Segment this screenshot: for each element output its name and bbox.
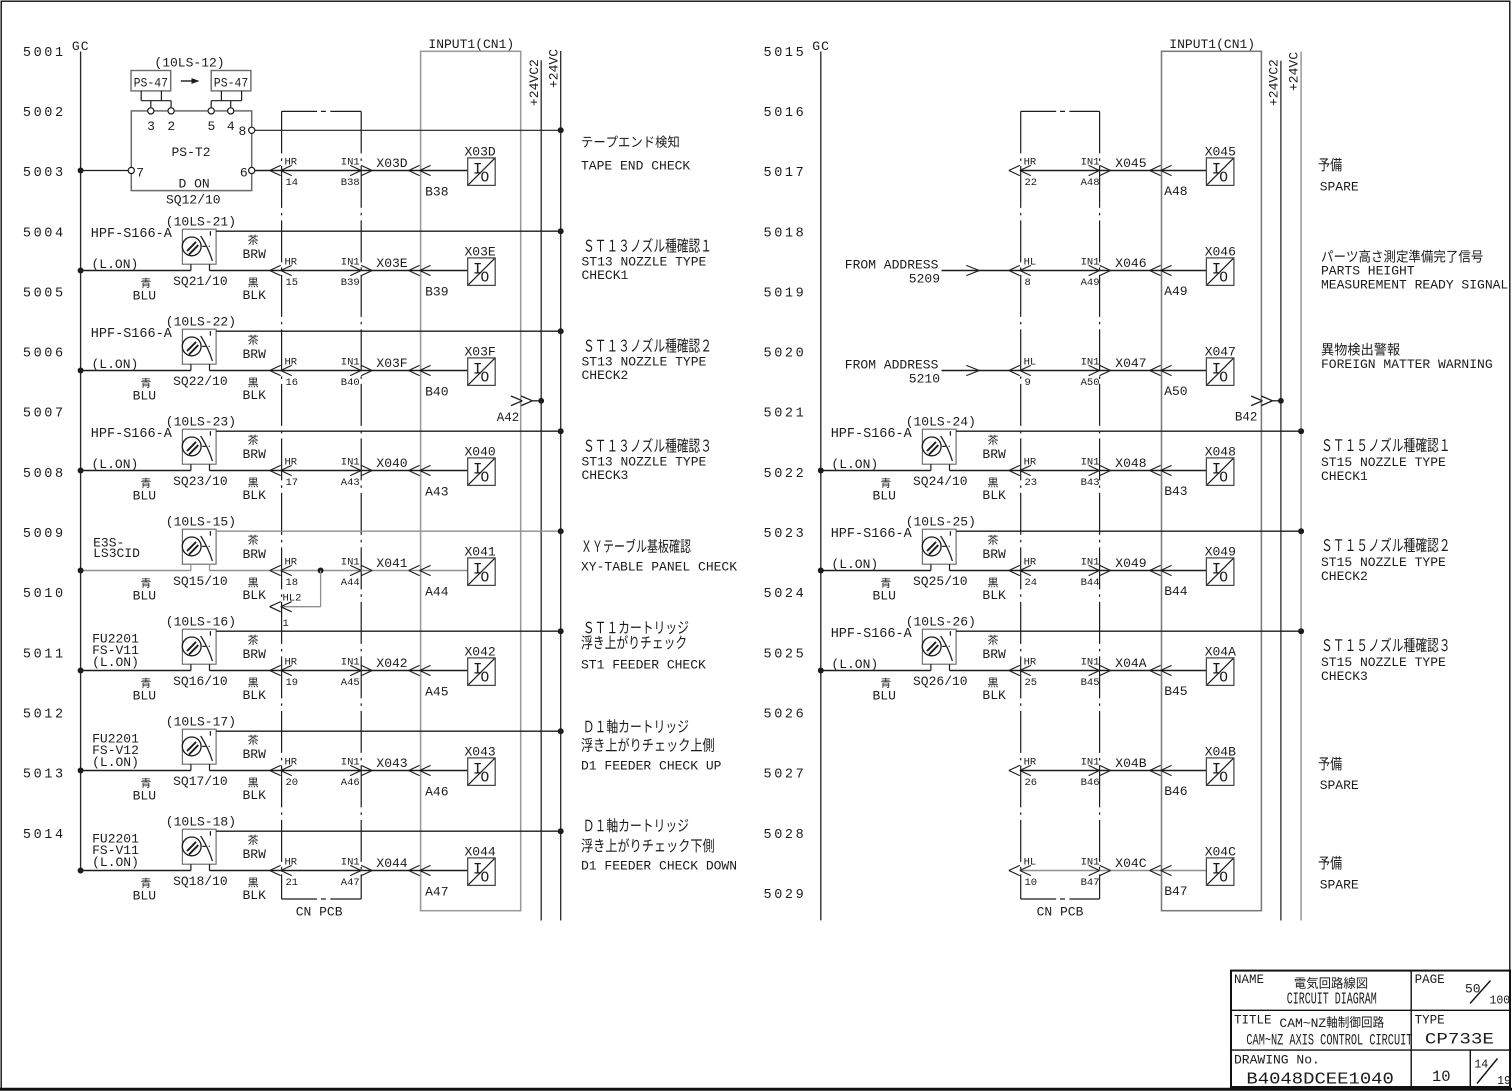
wire sensor SQ21/10 to connector X03E <box>210 270 468 272</box>
svg-text:HR: HR <box>285 657 298 669</box>
svg-text:IN1: IN1 <box>1081 757 1100 769</box>
connector plug X03D at INPUT1 <box>409 165 431 175</box>
connector X03D label <box>376 156 407 171</box>
svg-text:X042: X042 <box>465 644 496 659</box>
connector plug X043 at INPUT1 <box>409 765 431 775</box>
svg-text:XY-TABLE PANEL CHECK: XY-TABLE PANEL CHECK <box>581 559 737 574</box>
svg-text:5013: 5013 <box>23 768 66 783</box>
svg-text:D ON: D ON <box>179 176 210 191</box>
svg-text:B47: B47 <box>1081 877 1100 889</box>
connector pin IN1 A50 right <box>1081 357 1111 390</box>
svg-text:ST15 NOZZLE TYPE: ST15 NOZZLE TYPE <box>1321 455 1446 470</box>
connector pin IN1 A47 <box>341 857 372 890</box>
svg-text:INPUT1(CN1): INPUT1(CN1) <box>428 37 514 52</box>
wire GC to sensor SQ24/10 <box>818 468 931 474</box>
svg-text:O: O <box>481 670 490 686</box>
sensor assembly label (10LS-12) <box>154 56 224 71</box>
wire color label brown (BRW) row X03F <box>243 335 267 362</box>
net label A48 at INPUT1 right <box>1164 184 1187 199</box>
svg-text:5005: 5005 <box>23 286 66 301</box>
svg-text:X047: X047 <box>1205 344 1236 359</box>
line number labels 5015-5029 <box>764 46 807 903</box>
svg-text:5019: 5019 <box>764 286 807 301</box>
net label A44 at INPUT1 <box>425 585 449 600</box>
svg-text:CAM~NZ: CAM~NZ <box>1279 1016 1326 1031</box>
svg-text:19: 19 <box>1497 1075 1511 1088</box>
connector X049 label <box>1115 556 1146 571</box>
connector pin HL 8 (CN PCB side, right) <box>1009 257 1036 290</box>
wire sensor top (BRW) to +24VC row X049 <box>956 528 1304 534</box>
svg-text:BLK: BLK <box>982 688 1006 703</box>
title block TYPE cell CP733E <box>1415 1013 1494 1048</box>
svg-text:5209: 5209 <box>909 271 940 286</box>
wire GC to sensor SQ18/10 <box>78 868 191 874</box>
svg-text:ST15 NOZZLE TYPE: ST15 NOZZLE TYPE <box>1321 555 1446 570</box>
limit switch sensor SQ17/10 (10LS-17) <box>92 715 236 790</box>
svg-text:IN1: IN1 <box>341 557 360 569</box>
wire sensor top (BRW) to +24VC row X04A <box>956 628 1304 634</box>
dash-dot boundary box CN PCB (right) <box>1021 111 1100 919</box>
svg-text:24: 24 <box>1025 577 1038 589</box>
line number labels 5001-5014 <box>23 46 66 843</box>
wire spare row to connector X04C <box>1021 870 1207 872</box>
wire color label black (BLK) row X03F <box>243 378 267 403</box>
svg-text:X048: X048 <box>1115 456 1146 471</box>
svg-text:BLU: BLU <box>133 489 156 504</box>
wire sensor SQ18/10 to connector X044 <box>210 870 468 872</box>
power bus +24VC left <box>546 49 561 921</box>
signal source FROM ADDRESS 5210 <box>845 357 940 386</box>
connector pin IN1 B47 right <box>1081 857 1111 890</box>
svg-text:7: 7 <box>136 165 144 180</box>
limit switch sensor SQ24/10 (10LS-24) <box>831 415 976 490</box>
svg-text:CHECK3: CHECK3 <box>1321 669 1368 684</box>
I/O module X047 <box>1205 344 1236 386</box>
svg-text:SQ25/10: SQ25/10 <box>913 574 968 589</box>
connector pin HR 26 (CN PCB side, right) <box>1009 757 1037 790</box>
wire PS-T2 pin 6 to connector X03D <box>255 170 468 172</box>
svg-text:X03E: X03E <box>465 244 496 259</box>
svg-text:BLK: BLK <box>243 388 267 403</box>
svg-text:5012: 5012 <box>23 707 66 722</box>
net label A47 at INPUT1 <box>425 885 448 900</box>
svg-text:LS3CID: LS3CID <box>93 546 140 561</box>
svg-text:PS-T2: PS-T2 <box>172 145 211 160</box>
wire color label blue (BLU) row X03F <box>133 378 156 404</box>
connector pin HR 22 (CN PCB side, right) <box>1009 157 1037 190</box>
svg-text:HL: HL <box>1024 257 1037 269</box>
svg-text:5003: 5003 <box>23 166 66 181</box>
wire color label brown (BRW) row X03E <box>243 235 267 262</box>
svg-text:O: O <box>481 570 490 586</box>
wire bracket PS-47 first to PS-T2 pins 3,2 <box>141 91 171 108</box>
svg-text:SQ24/10: SQ24/10 <box>913 474 968 489</box>
svg-text:BLK: BLK <box>243 288 267 303</box>
svg-text:B44: B44 <box>1081 577 1100 589</box>
connector X04A label <box>1115 656 1146 671</box>
svg-text:TYPE: TYPE <box>1415 1013 1445 1027</box>
svg-text:O: O <box>1219 870 1228 886</box>
I/O module X03F <box>465 344 496 386</box>
net label B38 at INPUT1 <box>425 185 448 200</box>
net link A42 arrow to +24VC2 <box>497 396 544 425</box>
description SPARE X04B <box>1319 757 1359 793</box>
wire color label blue (BLU) row X048 <box>873 478 896 504</box>
svg-text:HPF-S166-A: HPF-S166-A <box>91 327 173 342</box>
svg-text:CHECK2: CHECK2 <box>582 368 629 383</box>
connector pin IN1 A44 <box>341 557 372 590</box>
svg-text:22: 22 <box>1025 177 1038 189</box>
photo-sensor PS-47 (first) <box>131 71 171 91</box>
I/O module X041 <box>465 544 496 586</box>
svg-text:X03D: X03D <box>465 144 496 159</box>
svg-text:B46: B46 <box>1164 784 1187 799</box>
connector X040 label <box>376 456 407 471</box>
description SPARE X04C <box>1319 856 1359 893</box>
svg-text:5006: 5006 <box>23 347 66 362</box>
svg-text:(10LS-16): (10LS-16) <box>166 615 236 630</box>
connector pin IN1 A43 <box>341 457 372 490</box>
svg-text:A44: A44 <box>425 585 449 600</box>
connector X048 label <box>1115 456 1146 471</box>
description SPARE X045 <box>1319 158 1359 195</box>
connector plug X048 at INPUT1 right <box>1150 465 1172 475</box>
svg-text:HPF-S166-A: HPF-S166-A <box>91 227 173 242</box>
svg-text:(10LS-21): (10LS-21) <box>166 215 236 230</box>
wire sensor SQ25/10 to connector X049 <box>950 570 1207 572</box>
svg-text:HR: HR <box>285 557 298 569</box>
connector X042 label <box>376 656 407 671</box>
svg-text:X049: X049 <box>1205 544 1236 559</box>
svg-text:B47: B47 <box>1164 884 1187 899</box>
svg-text:HR: HR <box>1024 457 1037 469</box>
svg-text:BRW: BRW <box>243 347 267 362</box>
wire sensor top (BRW) to +24VC row X03F <box>216 328 564 334</box>
svg-text:B39: B39 <box>425 285 448 300</box>
svg-text:PS-47: PS-47 <box>214 77 249 91</box>
connector plug X042 at INPUT1 <box>409 665 431 675</box>
wire sensor SQ15/10 to connector X041 <box>210 570 468 572</box>
svg-text:BLU: BLU <box>873 489 896 504</box>
description PARTS HEIGHT MEASUREMENT READY SIGNAL <box>1321 250 1508 293</box>
svg-text:(L.ON): (L.ON) <box>831 557 878 572</box>
svg-text:A47: A47 <box>341 877 360 889</box>
svg-text:5015: 5015 <box>764 46 807 61</box>
svg-text:14: 14 <box>286 177 299 189</box>
connector pin HR 14 (CN PCB side) <box>270 157 298 190</box>
wire sensor top (BRW) to +24VC row X040 <box>216 428 564 434</box>
svg-text:HR: HR <box>1024 157 1037 169</box>
svg-text:+24VC2: +24VC2 <box>527 59 542 106</box>
connector pin HR 15 (CN PCB side) <box>270 257 298 290</box>
dash-dot boundary box CN PCB (left) <box>282 111 362 919</box>
svg-text:BLU: BLU <box>873 589 896 604</box>
svg-text:(10LS-25): (10LS-25) <box>906 515 976 530</box>
svg-text:(10LS-15): (10LS-15) <box>166 515 236 530</box>
svg-text:19: 19 <box>286 677 299 689</box>
description ST13 NOZZLE TYPE CHECK3 <box>582 438 710 483</box>
svg-text:17: 17 <box>286 477 299 489</box>
svg-text:B38: B38 <box>341 177 360 189</box>
net label B47 at INPUT1 right <box>1164 884 1187 899</box>
svg-text:(10LS-26): (10LS-26) <box>906 615 976 630</box>
svg-text:HR: HR <box>285 457 298 469</box>
title block DRAWING No cell <box>1234 1053 1511 1089</box>
connector X03E label <box>376 256 407 271</box>
connector plug X041 at INPUT1 <box>409 565 431 575</box>
svg-text:A42: A42 <box>497 411 520 425</box>
wire color label brown (BRW) row X042 <box>243 635 267 662</box>
svg-text:IN1: IN1 <box>1081 657 1100 669</box>
svg-text:(L.ON): (L.ON) <box>831 457 878 472</box>
svg-text:(L.ON): (L.ON) <box>92 257 139 272</box>
svg-text:X044: X044 <box>465 844 496 859</box>
I/O module X03D <box>465 144 496 186</box>
svg-text:BLK: BLK <box>243 488 267 503</box>
svg-text:X043: X043 <box>465 744 496 759</box>
net label B39 at INPUT1 <box>425 285 448 300</box>
svg-text:10: 10 <box>1432 1068 1451 1086</box>
wire color label brown (BRW) row X049 <box>982 535 1006 562</box>
connector pin IN1 B45 right <box>1081 657 1111 690</box>
svg-text:+24VC: +24VC <box>546 49 561 88</box>
svg-text:A48: A48 <box>1081 177 1100 189</box>
svg-text:O: O <box>481 370 490 386</box>
svg-text:BRW: BRW <box>243 247 267 262</box>
svg-text:HR: HR <box>285 357 298 369</box>
title block frame <box>1231 971 1510 1087</box>
net label B44 at INPUT1 right <box>1164 584 1188 599</box>
svg-text:5002: 5002 <box>23 106 66 121</box>
connector box INPUT1(CN1) left <box>421 37 521 911</box>
wire sensor top (BRW) to +24VC row X044 <box>216 828 564 834</box>
svg-text:D1 FEEDER CHECK DOWN: D1 FEEDER CHECK DOWN <box>581 859 737 874</box>
svg-text:INPUT1(CN1): INPUT1(CN1) <box>1169 37 1255 52</box>
svg-text:10: 10 <box>1025 877 1038 889</box>
wire PS-T2 pin 8 to +24VC <box>255 127 564 133</box>
wire color label blue (BLU) row X03E <box>133 278 156 304</box>
svg-text:+24VC2: +24VC2 <box>1267 59 1282 106</box>
description ST13 NOZZLE TYPE CHECK1 <box>582 238 710 283</box>
svg-text:SQ21/10: SQ21/10 <box>173 274 228 289</box>
connector X047 label <box>1115 356 1146 371</box>
svg-text:X040: X040 <box>465 444 496 459</box>
svg-text:X03F: X03F <box>465 344 496 359</box>
wire color label black (BLK) row X03E <box>243 278 267 303</box>
net label A45 at INPUT1 <box>425 685 448 700</box>
wire color label blue (BLU) row X049 <box>873 578 896 604</box>
svg-text:HL: HL <box>1024 357 1037 369</box>
connector plug X04B at INPUT1 right <box>1150 765 1172 775</box>
svg-text:X049: X049 <box>1115 556 1146 571</box>
wire color label brown (BRW) row X04A <box>982 635 1006 662</box>
svg-text:5016: 5016 <box>764 106 807 121</box>
description D1 FEEDER CHECK DOWN <box>581 818 737 874</box>
svg-text:B38: B38 <box>425 185 448 200</box>
svg-text:BRW: BRW <box>982 647 1006 662</box>
svg-text:(10LS-24): (10LS-24) <box>906 415 976 430</box>
wire sensor top (BRW) to +24VC row X043 <box>216 728 564 734</box>
wire sensor SQ23/10 to connector X040 <box>210 470 468 472</box>
wire spare row to connector X045 <box>1021 170 1207 172</box>
wire color label black (BLK) row X041 <box>243 578 267 603</box>
connector pin HR 20 (CN PCB side) <box>270 757 298 790</box>
svg-text:HPF-S166-A: HPF-S166-A <box>831 627 913 642</box>
connector pin HR 23 (CN PCB side, right) <box>1009 457 1037 490</box>
svg-text:B45: B45 <box>1164 684 1187 699</box>
connector pin HR 16 (CN PCB side) <box>270 357 298 390</box>
svg-text:SQ23/10: SQ23/10 <box>173 474 228 489</box>
connector pin IN1 A48 right <box>1081 157 1111 190</box>
svg-text:FROM ADDRESS: FROM ADDRESS <box>845 257 939 272</box>
svg-text:5028: 5028 <box>764 828 807 843</box>
connector X03F label <box>376 356 407 371</box>
connector pin HR 17 (CN PCB side) <box>270 457 298 490</box>
svg-text:CIRCUIT DIAGRAM: CIRCUIT DIAGRAM <box>1287 990 1377 1009</box>
svg-text:BLK: BLK <box>243 688 267 703</box>
limit switch sensor SQ16/10 (10LS-16) <box>92 615 236 690</box>
svg-text:BLK: BLK <box>243 588 267 603</box>
svg-text:SQ18/10: SQ18/10 <box>173 874 228 889</box>
svg-text:IN1: IN1 <box>1081 257 1100 269</box>
svg-text:IN1: IN1 <box>341 357 360 369</box>
I/O module X04C <box>1205 844 1236 886</box>
wire color label black (BLK) row X042 <box>243 678 267 703</box>
wire sensor top (BRW) to +24VC row X042 <box>216 628 564 634</box>
wire bracket PS-47 second to PS-T2 pins 5,4 <box>211 91 241 108</box>
svg-text:(L.ON): (L.ON) <box>92 755 139 770</box>
svg-text:B40: B40 <box>425 385 448 400</box>
svg-text:5004: 5004 <box>23 226 66 241</box>
svg-text:X046: X046 <box>1115 256 1146 271</box>
wire color label blue (BLU) row X041 <box>133 578 156 604</box>
net GC (right) label <box>812 39 830 54</box>
svg-text:O: O <box>481 270 490 286</box>
connector X043 label <box>376 756 407 771</box>
svg-text:5001: 5001 <box>23 46 66 61</box>
svg-text:5010: 5010 <box>23 587 66 602</box>
connector pin IN1 A46 <box>341 757 372 790</box>
limit switch sensor SQ22/10 (10LS-22) <box>91 315 236 390</box>
limit switch sensor SQ23/10 (10LS-23) <box>91 415 236 490</box>
wire sensor SQ26/10 to connector X04A <box>950 670 1207 672</box>
wire GC to sensor SQ25/10 <box>818 568 931 574</box>
svg-text:X04C: X04C <box>1205 844 1236 859</box>
svg-text:A49: A49 <box>1164 284 1187 299</box>
description D1 FEEDER CHECK UP <box>581 719 722 773</box>
svg-text:A45: A45 <box>341 677 360 689</box>
svg-text:5017: 5017 <box>764 166 807 181</box>
connector pin IN1 B43 right <box>1081 457 1111 490</box>
connector plug X03E at INPUT1 <box>409 265 431 275</box>
svg-text:SPARE: SPARE <box>1320 179 1359 194</box>
svg-text:ST13 NOZZLE TYPE: ST13 NOZZLE TYPE <box>582 454 707 469</box>
svg-text:15: 15 <box>286 277 299 289</box>
svg-text:5027: 5027 <box>764 768 807 783</box>
wire GC to PS-T2 pin 7 <box>78 168 129 174</box>
svg-text:A50: A50 <box>1164 384 1187 399</box>
svg-text:HR: HR <box>1024 557 1037 569</box>
svg-text:X043: X043 <box>376 756 407 771</box>
svg-text:IN1: IN1 <box>341 257 360 269</box>
photo-sensor PS-47 (second) <box>211 71 251 91</box>
wire color label brown (BRW) row X044 <box>243 835 267 862</box>
svg-text:B46: B46 <box>1081 777 1100 789</box>
I/O module X048 <box>1205 444 1236 486</box>
connector X041 label <box>376 556 407 571</box>
svg-text:BLK: BLK <box>982 488 1006 503</box>
svg-text:X042: X042 <box>376 656 407 671</box>
wire GC to sensor SQ15/10 <box>78 568 191 574</box>
svg-text:PS-47: PS-47 <box>134 77 169 91</box>
svg-text:ST1 FEEDER CHECK: ST1 FEEDER CHECK <box>581 658 706 673</box>
wire color label black (BLK) row X040 <box>243 478 267 503</box>
wire sensor top (BRW) to +24VC row X03E <box>216 228 564 234</box>
svg-text:B43: B43 <box>1081 477 1100 489</box>
svg-text:HR: HR <box>285 757 298 769</box>
svg-text:14: 14 <box>1474 1059 1488 1072</box>
connector plug X040 at INPUT1 <box>409 465 431 475</box>
svg-text:HL2: HL2 <box>283 593 302 605</box>
description ST15 NOZZLE TYPE CHECK2 <box>1321 537 1448 584</box>
wire sensor top (BRW) to +24VC row X041 <box>216 528 564 534</box>
svg-text:X041: X041 <box>465 544 496 559</box>
svg-text:CN PCB: CN PCB <box>296 905 343 920</box>
svg-text:IN1: IN1 <box>341 457 360 469</box>
svg-text:PARTS HEIGHT: PARTS HEIGHT <box>1321 264 1415 279</box>
svg-text:O: O <box>1219 670 1228 686</box>
svg-text:(10LS-18): (10LS-18) <box>166 815 236 830</box>
svg-text:BRW: BRW <box>982 547 1006 562</box>
svg-text:SQ17/10: SQ17/10 <box>173 774 228 789</box>
svg-text:ST13 NOZZLE TYPE: ST13 NOZZLE TYPE <box>582 354 707 369</box>
svg-text:HR: HR <box>285 257 298 269</box>
svg-text:(10LS-22): (10LS-22) <box>166 315 236 330</box>
bus GC right vertical wire <box>820 52 822 921</box>
svg-text:BRW: BRW <box>243 547 267 562</box>
limit switch sensor SQ15/10 (10LS-15) <box>93 515 236 590</box>
connector pin IN1 B39 <box>341 257 372 290</box>
wire spare row to connector X04B <box>1021 770 1207 772</box>
svg-text:A43: A43 <box>341 477 360 489</box>
connector pin HR 21 (CN PCB side) <box>270 857 298 890</box>
svg-text:(10LS-12): (10LS-12) <box>154 56 224 71</box>
svg-text:23: 23 <box>1025 477 1038 489</box>
svg-text:IN1: IN1 <box>341 857 360 869</box>
svg-text:O: O <box>1219 470 1228 486</box>
connector plug X045 at INPUT1 right <box>1150 165 1172 175</box>
wire color label brown (BRW) row X048 <box>982 435 1006 462</box>
svg-text:X047: X047 <box>1115 356 1146 371</box>
svg-text:O: O <box>1219 370 1228 386</box>
wire color label black (BLK) row X048 <box>982 478 1006 503</box>
I/O module X04A <box>1205 644 1236 686</box>
svg-text:BRW: BRW <box>243 747 267 762</box>
svg-text:O: O <box>481 870 490 886</box>
svg-text:5026: 5026 <box>764 707 807 722</box>
svg-text:B44: B44 <box>1164 584 1188 599</box>
power bus +24VC right <box>1287 52 1302 921</box>
svg-text:O: O <box>481 470 490 486</box>
limit switch sensor SQ18/10 (10LS-18) <box>92 815 236 890</box>
limit switch sensor SQ21/10 (10LS-21) <box>91 215 236 290</box>
svg-text:X046: X046 <box>1205 244 1236 259</box>
title block TITLE cell CAM~NZ AXIS CONTROL CIRCUIT <box>1234 1013 1412 1049</box>
connector pin HL 10 (CN PCB side, right) <box>1009 857 1037 890</box>
svg-text:BLK: BLK <box>243 888 267 903</box>
description ST15 NOZZLE TYPE CHECK3 <box>1321 637 1448 684</box>
svg-text:IN1: IN1 <box>1081 357 1100 369</box>
